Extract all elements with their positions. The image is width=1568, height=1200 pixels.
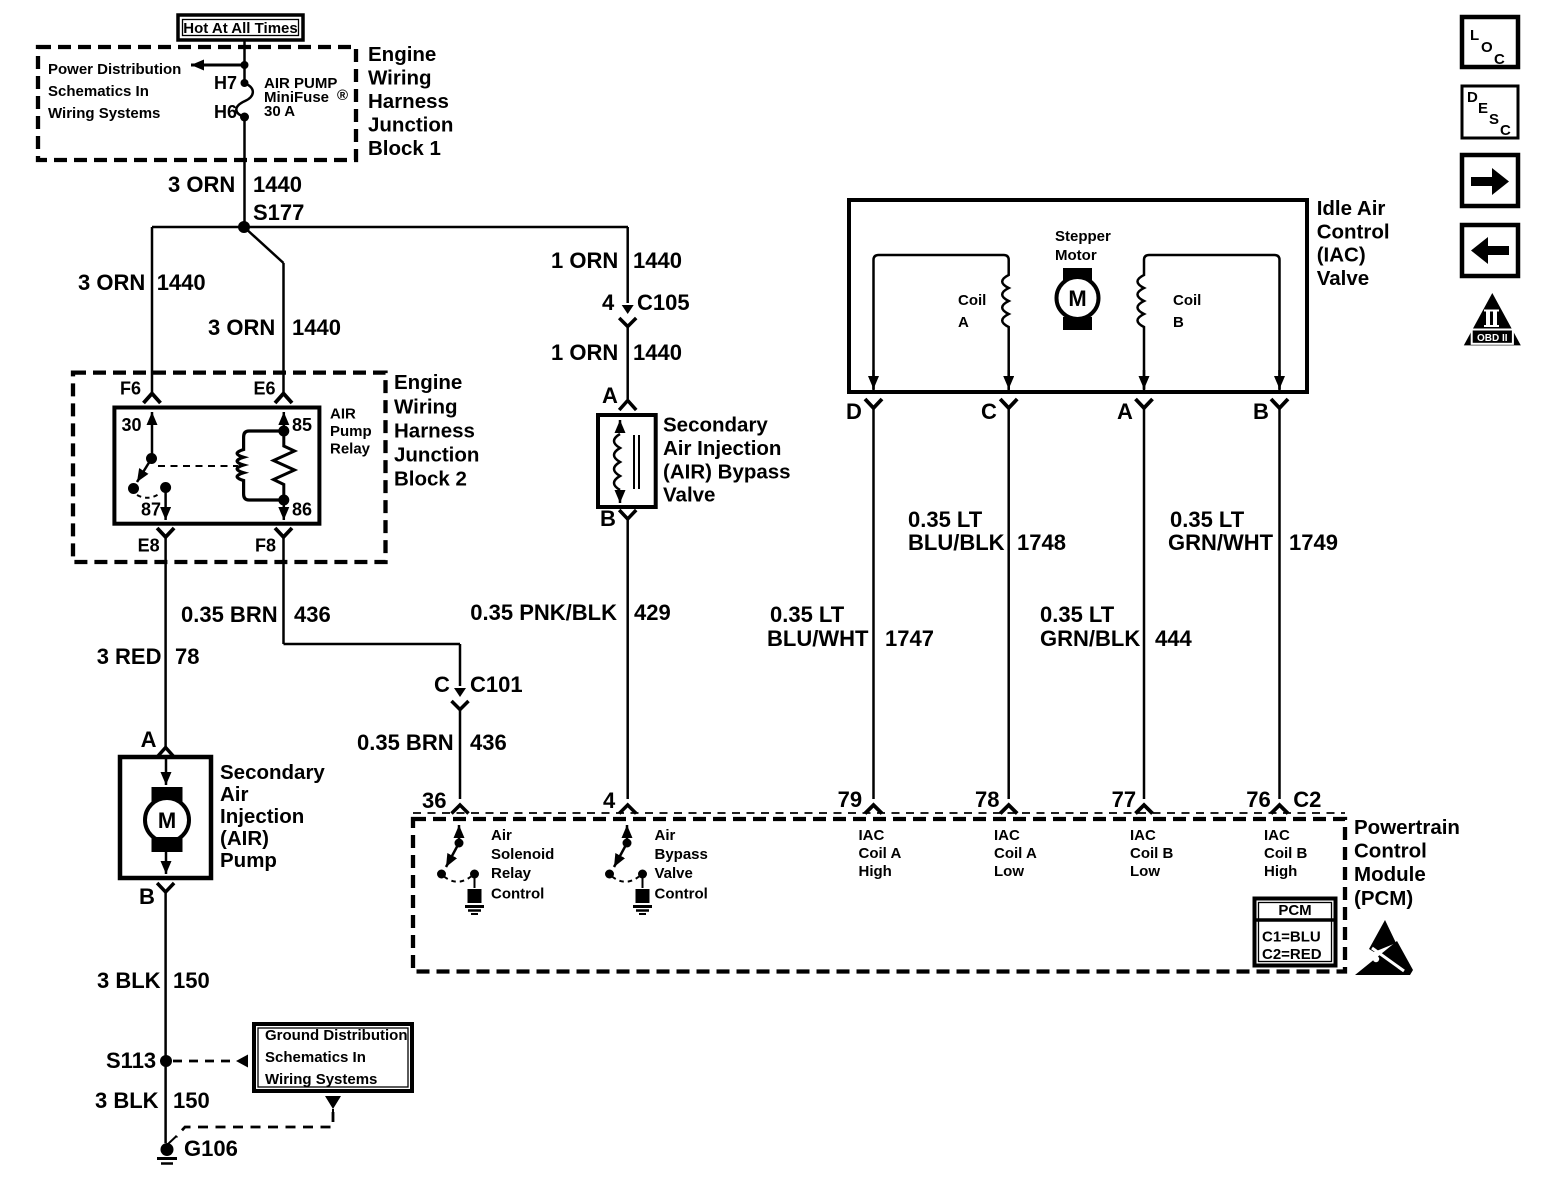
- svg-text:OBD II: OBD II: [1477, 333, 1508, 344]
- svg-text:IAC: IAC: [994, 827, 1020, 844]
- svg-text:C: C: [1494, 51, 1505, 68]
- svg-text:Harness: Harness: [394, 419, 475, 442]
- svg-text:S: S: [1489, 111, 1499, 128]
- svg-text:C: C: [434, 672, 450, 697]
- svg-text:429: 429: [634, 600, 671, 625]
- svg-text:78: 78: [975, 787, 999, 812]
- svg-text:(IAC): (IAC): [1317, 244, 1366, 267]
- svg-text:Junction: Junction: [368, 114, 453, 137]
- svg-text:Coil: Coil: [1173, 292, 1201, 309]
- svg-text:Coil A: Coil A: [859, 845, 902, 862]
- svg-text:B: B: [1253, 399, 1269, 424]
- svg-text:Low: Low: [994, 863, 1024, 880]
- svg-text:0.35 BRN: 0.35 BRN: [357, 730, 454, 755]
- svg-text:GRN/WHT: GRN/WHT: [1168, 530, 1274, 555]
- svg-text:Wiring Systems: Wiring Systems: [265, 1071, 377, 1088]
- svg-text:Hot At All Times: Hot At All Times: [183, 20, 297, 37]
- svg-text:0.35 LT: 0.35 LT: [1040, 602, 1115, 627]
- svg-text:C105: C105: [637, 290, 690, 315]
- svg-text:High: High: [1264, 863, 1297, 880]
- svg-text:B: B: [600, 506, 616, 531]
- svg-text:3 BLK: 3 BLK: [97, 968, 161, 993]
- svg-text:H6: H6: [214, 102, 237, 122]
- svg-text:Junction: Junction: [394, 444, 479, 467]
- svg-text:0.35 PNK/BLK: 0.35 PNK/BLK: [470, 600, 617, 625]
- svg-text:85: 85: [292, 415, 312, 435]
- svg-text:Pump: Pump: [220, 849, 277, 872]
- svg-text:150: 150: [173, 968, 210, 993]
- svg-text:1749: 1749: [1289, 530, 1338, 555]
- svg-text:Pump: Pump: [330, 423, 372, 440]
- svg-text:3 ORN: 3 ORN: [208, 315, 275, 340]
- svg-text:Air: Air: [220, 783, 249, 806]
- svg-text:1 ORN: 1 ORN: [551, 248, 618, 273]
- svg-text:76: 76: [1246, 787, 1270, 812]
- svg-text:Schematics In: Schematics In: [265, 1049, 366, 1066]
- svg-text:E: E: [1478, 100, 1488, 117]
- svg-text:E6: E6: [254, 379, 276, 399]
- svg-text:(PCM): (PCM): [1354, 887, 1413, 910]
- svg-text:A: A: [958, 314, 969, 331]
- svg-text:Block 1: Block 1: [368, 137, 441, 160]
- svg-text:D: D: [1467, 89, 1478, 106]
- svg-text:Low: Low: [1130, 863, 1160, 880]
- svg-text:M: M: [1068, 286, 1086, 311]
- svg-text:1 ORN: 1 ORN: [551, 340, 618, 365]
- svg-text:B: B: [139, 884, 155, 909]
- svg-text:Bypass: Bypass: [655, 846, 708, 863]
- svg-text:Idle Air: Idle Air: [1317, 197, 1386, 220]
- svg-text:Stepper: Stepper: [1055, 228, 1111, 245]
- svg-text:86: 86: [292, 500, 312, 520]
- svg-text:Coil: Coil: [958, 292, 986, 309]
- svg-text:3 RED: 3 RED: [97, 644, 162, 669]
- svg-text:Secondary: Secondary: [220, 761, 325, 784]
- svg-text:Air Injection: Air Injection: [663, 437, 781, 460]
- svg-text:0.35 LT: 0.35 LT: [908, 507, 983, 532]
- svg-text:Injection: Injection: [220, 805, 304, 828]
- svg-text:Schematics In: Schematics In: [48, 83, 149, 100]
- svg-text:Powertrain: Powertrain: [1354, 816, 1460, 839]
- svg-text:444: 444: [1155, 626, 1192, 651]
- svg-text:A: A: [602, 383, 618, 408]
- svg-text:M: M: [158, 808, 176, 833]
- svg-text:Control: Control: [491, 886, 544, 903]
- svg-text:Ground Distribution: Ground Distribution: [265, 1027, 407, 1044]
- svg-text:A: A: [1117, 399, 1133, 424]
- svg-text:BLU/BLK: BLU/BLK: [908, 530, 1005, 555]
- svg-text:Relay: Relay: [491, 865, 532, 882]
- svg-text:Coil A: Coil A: [994, 845, 1037, 862]
- svg-text:B: B: [1173, 314, 1184, 331]
- svg-text:Wiring: Wiring: [394, 395, 458, 418]
- svg-text:Module: Module: [1354, 863, 1426, 886]
- svg-text:1748: 1748: [1017, 530, 1066, 555]
- svg-text:Motor: Motor: [1055, 247, 1097, 264]
- svg-text:C1=BLU: C1=BLU: [1262, 929, 1321, 946]
- svg-text:1747: 1747: [885, 626, 934, 651]
- svg-text:Valve: Valve: [1317, 267, 1369, 290]
- svg-text:Coil B: Coil B: [1264, 845, 1307, 862]
- svg-text:Valve: Valve: [655, 865, 693, 882]
- svg-text:IAC: IAC: [1130, 827, 1156, 844]
- svg-text:G106: G106: [184, 1136, 238, 1161]
- svg-text:79: 79: [838, 787, 862, 812]
- svg-text:0.35 LT: 0.35 LT: [1170, 507, 1245, 532]
- svg-text:Air: Air: [655, 827, 676, 844]
- svg-text:F8: F8: [255, 536, 276, 556]
- svg-text:4: 4: [602, 290, 615, 315]
- svg-text:®: ®: [337, 87, 348, 104]
- svg-text:S113: S113: [106, 1048, 156, 1073]
- svg-text:PCM: PCM: [1278, 902, 1311, 919]
- svg-text:4: 4: [603, 788, 616, 813]
- svg-text:AIR: AIR: [330, 406, 356, 423]
- svg-text:1440: 1440: [292, 315, 341, 340]
- svg-text:Secondary: Secondary: [663, 414, 768, 437]
- svg-text:GRN/BLK: GRN/BLK: [1040, 626, 1140, 651]
- svg-text:Solenoid: Solenoid: [491, 846, 554, 863]
- svg-text:436: 436: [294, 602, 331, 627]
- svg-text:Relay: Relay: [330, 441, 371, 458]
- svg-text:0.35 BRN: 0.35 BRN: [181, 602, 278, 627]
- svg-text:Block 2: Block 2: [394, 468, 467, 491]
- svg-text:BLU/WHT: BLU/WHT: [767, 626, 869, 651]
- svg-text:IAC: IAC: [859, 827, 885, 844]
- svg-text:78: 78: [175, 644, 199, 669]
- svg-text:F6: F6: [120, 379, 141, 399]
- svg-text:Control: Control: [1317, 220, 1390, 243]
- svg-text:E8: E8: [138, 536, 160, 556]
- svg-text:O: O: [1481, 39, 1493, 56]
- svg-text:L: L: [1470, 27, 1479, 44]
- svg-text:High: High: [859, 863, 892, 880]
- svg-text:Coil B: Coil B: [1130, 845, 1173, 862]
- svg-text:C: C: [981, 399, 997, 424]
- svg-text:C2: C2: [1293, 787, 1321, 812]
- svg-text:Engine: Engine: [394, 371, 462, 394]
- svg-text:Engine: Engine: [368, 43, 436, 66]
- svg-text:30 A: 30 A: [264, 103, 295, 120]
- svg-text:Control: Control: [655, 886, 708, 903]
- svg-text:Wiring: Wiring: [368, 67, 432, 90]
- svg-text:1440: 1440: [633, 340, 682, 365]
- svg-text:S177: S177: [253, 200, 304, 225]
- svg-text:C2=RED: C2=RED: [1262, 946, 1322, 963]
- svg-text:1440: 1440: [253, 172, 302, 197]
- svg-text:3 ORN: 3 ORN: [168, 172, 235, 197]
- svg-text:Harness: Harness: [368, 90, 449, 113]
- svg-text:C101: C101: [470, 672, 523, 697]
- svg-text:1440: 1440: [633, 248, 682, 273]
- svg-text:D: D: [846, 399, 862, 424]
- svg-text:IAC: IAC: [1264, 827, 1290, 844]
- svg-text:150: 150: [173, 1088, 210, 1113]
- svg-text:Control: Control: [1354, 840, 1427, 863]
- svg-text:3 ORN: 3 ORN: [78, 270, 145, 295]
- svg-text:1440: 1440: [157, 270, 206, 295]
- svg-text:(AIR) Bypass: (AIR) Bypass: [663, 460, 791, 483]
- svg-text:Power Distribution: Power Distribution: [48, 61, 181, 78]
- svg-text:C: C: [1500, 122, 1511, 139]
- svg-text:A: A: [141, 727, 157, 752]
- svg-text:36: 36: [422, 788, 446, 813]
- svg-text:3 BLK: 3 BLK: [95, 1088, 159, 1113]
- svg-text:77: 77: [1112, 787, 1136, 812]
- svg-text:0.35 LT: 0.35 LT: [770, 602, 845, 627]
- svg-text:H7: H7: [214, 73, 237, 93]
- svg-text:(AIR): (AIR): [220, 827, 269, 850]
- svg-text:436: 436: [470, 730, 507, 755]
- svg-text:Valve: Valve: [663, 484, 715, 507]
- svg-text:30: 30: [122, 415, 142, 435]
- svg-text:Wiring Systems: Wiring Systems: [48, 105, 160, 122]
- svg-text:Air: Air: [491, 827, 512, 844]
- svg-text:87: 87: [141, 500, 161, 520]
